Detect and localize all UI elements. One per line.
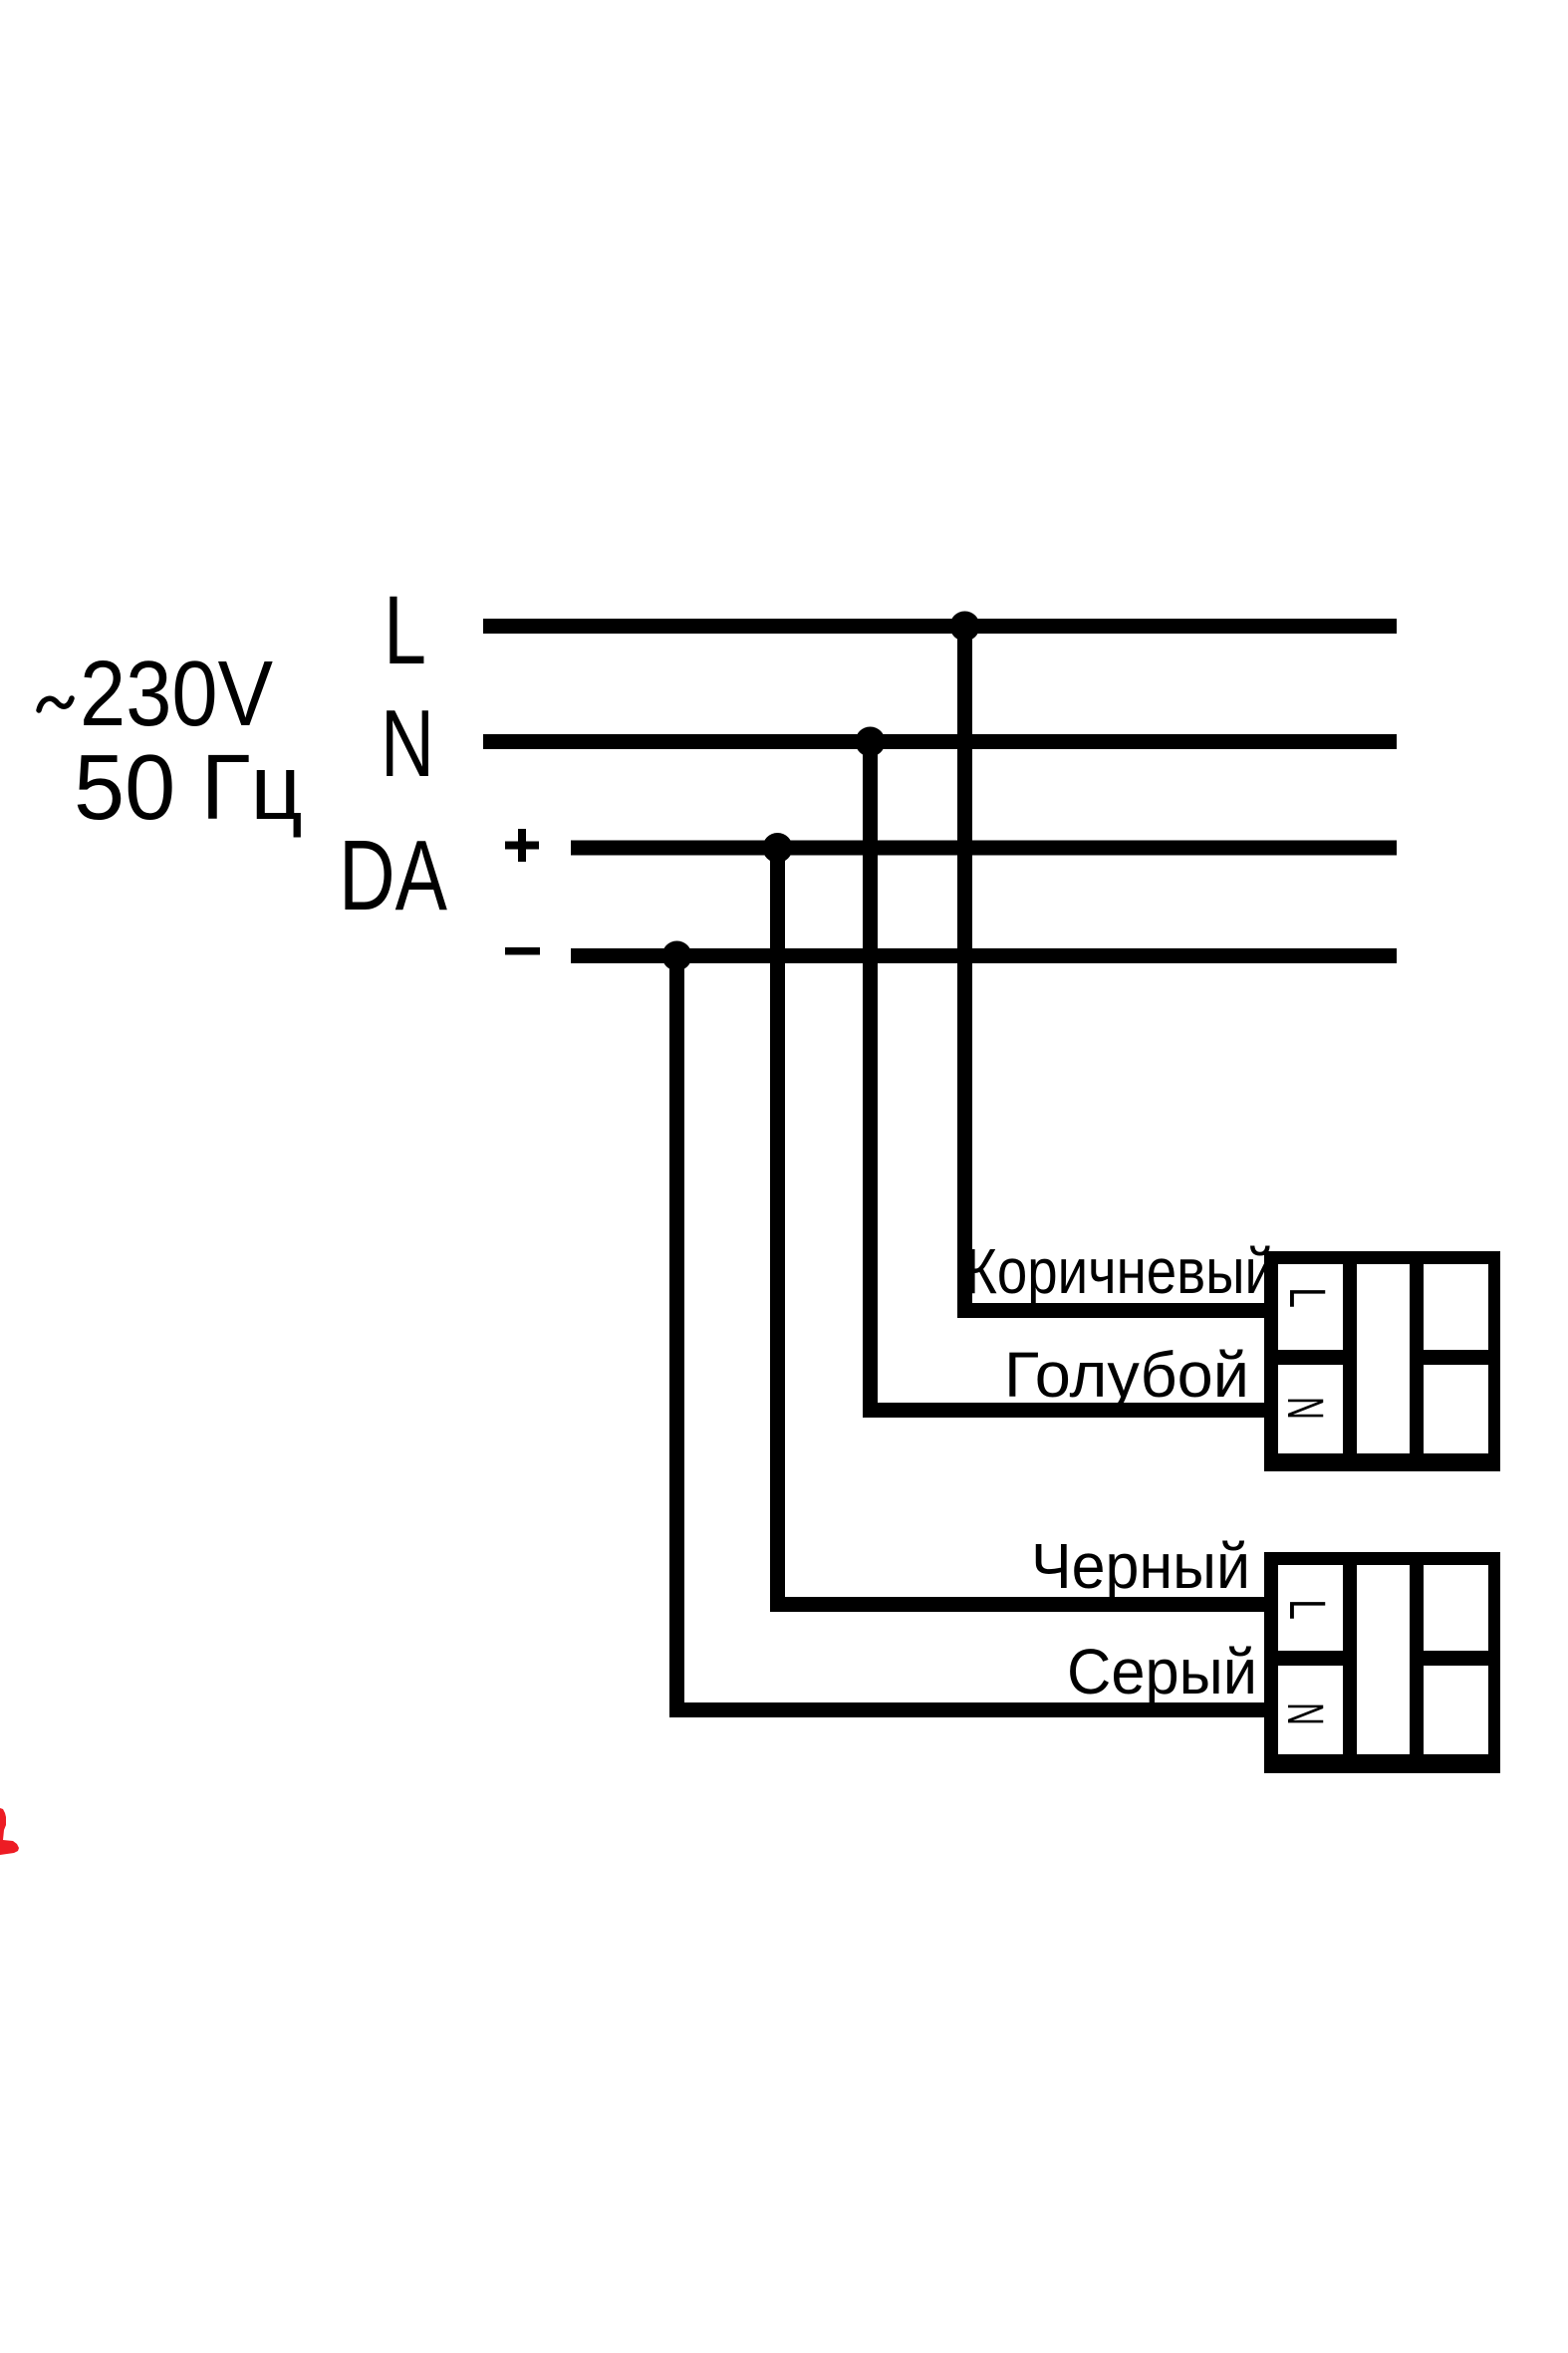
wire grey horizontal (Серый) [669,1702,1264,1717]
svg-text:N: N [1277,1702,1334,1725]
node + junction [763,833,793,863]
wire blue horizontal (Голубой) [863,1403,1264,1418]
label - (DA minus) [505,947,540,955]
wire L bus [483,619,1397,634]
svg-text:L: L [384,576,426,684]
red mark (cropped glyph at left edge) [0,1808,19,1855]
node - junction [662,941,692,971]
wire blue drop (N to connector 1 N) [863,741,878,1403]
svg-text:230V: 230V [80,642,273,745]
svg-text:50 Гц: 50 Гц [74,735,303,839]
wire black horizontal (Черный) [770,1597,1264,1612]
wire + bus [571,841,1397,856]
label + (DA plus) [505,829,539,862]
svg-text:Серый: Серый [1067,1636,1257,1707]
svg-text:Голубой: Голубой [1004,1339,1249,1411]
label ~230V [39,642,273,745]
wire black drop (+ to connector 2 L) [770,848,785,1597]
svg-text:L: L [1279,1599,1336,1620]
connector 2 terminal block body [1264,1552,1500,1773]
node L junction [950,612,980,642]
wire brown horizontal (Коричневый) [957,1303,1264,1318]
wire N bus [483,734,1397,749]
svg-text:Коричневый: Коричневый [965,1235,1275,1307]
svg-text:L: L [1279,1287,1336,1308]
svg-text:Черный: Черный [1031,1530,1250,1602]
wire - bus [571,948,1397,963]
svg-text:N: N [1277,1397,1334,1420]
node N junction [856,727,886,757]
svg-text:N: N [381,690,434,797]
wire brown drop (L to connector 1 L) [957,626,972,1303]
svg-text:DA: DA [339,820,447,931]
connector 1 terminal block body [1264,1251,1500,1471]
wire grey drop (- to connector 2 N) [669,955,684,1702]
